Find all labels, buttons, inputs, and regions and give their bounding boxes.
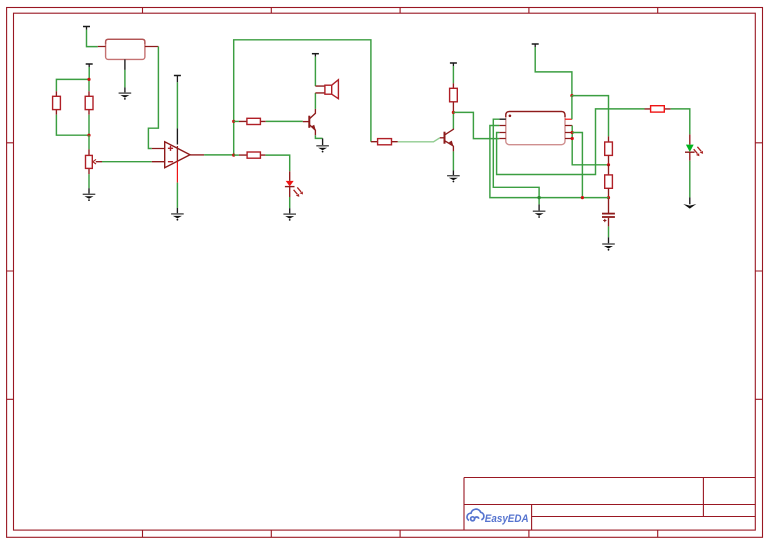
node junction 582 xyxy=(581,196,584,199)
wire R5 to LED1 xyxy=(265,155,289,171)
transistor Q2 xyxy=(445,128,454,151)
ground under LED2 xyxy=(683,204,696,209)
wire mic right to opamp plus xyxy=(148,47,158,149)
wire opamp output to junction xyxy=(204,154,234,156)
ground under mic xyxy=(119,92,132,99)
wire Q1 collector to speaker xyxy=(314,93,316,109)
resistor R6 xyxy=(371,139,398,145)
ground IC xyxy=(533,211,546,218)
resistor R9 xyxy=(605,136,613,164)
svg-text:EasyEDA: EasyEDA xyxy=(485,513,529,525)
ground under pot xyxy=(83,194,96,201)
node pin3R xyxy=(571,131,574,134)
wire T2 down to junction xyxy=(88,67,90,79)
power flag VCC T4 xyxy=(312,53,319,55)
resistor R10 xyxy=(605,165,613,198)
potentiometer RP1 xyxy=(86,149,103,174)
node junction bottom xyxy=(87,134,90,137)
ground under Q1 xyxy=(316,145,329,152)
node pin4R xyxy=(571,137,574,140)
resistor R8 bright xyxy=(645,106,671,112)
wire junction to R1 top xyxy=(56,79,89,91)
wire Q2 emitter to ground xyxy=(452,151,454,170)
IC left pin stubs xyxy=(499,118,506,120)
frame ticks top xyxy=(143,8,658,14)
node junction R9-R10 xyxy=(607,163,610,166)
wire junction to R5 xyxy=(234,154,239,156)
wire R4 to Q1 base xyxy=(266,120,303,122)
ground under opamp xyxy=(171,213,184,220)
wire Q2 collector junction to IC pin4L xyxy=(453,112,499,138)
wire R2 bottom to junction xyxy=(88,115,90,135)
wire T5 to R7 xyxy=(452,66,454,83)
wire R1 bottom to junction xyxy=(56,115,89,135)
power flag VCC T6 xyxy=(532,43,539,45)
wire IC pin1L to ground xyxy=(493,119,539,204)
ground under LED1 xyxy=(283,213,296,220)
node junction R4 xyxy=(232,120,235,123)
wire main vertical and top run xyxy=(234,40,371,155)
wire pin3R to lower junction xyxy=(572,133,582,198)
power flag VCC T3 xyxy=(174,75,181,77)
wire opamp bottom to ground xyxy=(176,183,178,208)
node junction R5 xyxy=(232,154,235,157)
node junction top xyxy=(87,78,90,81)
wire T1 to mic xyxy=(87,30,98,47)
frame ticks left xyxy=(7,143,14,400)
node junction Q2 collector xyxy=(452,111,455,114)
title block xyxy=(464,478,755,531)
LED D2 green xyxy=(685,134,703,160)
power flag VCC T5 xyxy=(450,62,457,64)
wire R6 to Q2 base (light) xyxy=(398,138,440,142)
wire T3 to opamp vcc pin xyxy=(176,82,178,128)
wire junction to Q2 collector xyxy=(452,112,454,128)
wire junction to R2 top xyxy=(88,79,90,91)
wire junction to pot xyxy=(88,135,90,149)
wire junction to R9 xyxy=(572,96,609,137)
ground under C1 xyxy=(602,243,615,250)
wire mic bottom to ground xyxy=(124,70,126,88)
wire IC pin3L to LED feed xyxy=(497,109,645,175)
LED D1 red xyxy=(285,171,303,197)
microphone MK1 body xyxy=(106,39,145,59)
node green crossing xyxy=(537,196,540,199)
power flag VCC T2 xyxy=(86,63,93,65)
resistor R1 xyxy=(53,91,61,115)
power flag VCC T1 xyxy=(83,26,90,28)
op-amp U1 xyxy=(152,142,204,168)
wire pot wiper to opamp minus xyxy=(102,161,152,163)
resistor R2 xyxy=(85,91,93,115)
resistor R5 xyxy=(239,152,266,158)
EasyEDA logo cloud xyxy=(467,509,484,521)
opamp bottom pin bright xyxy=(176,162,178,183)
wire C1 to ground xyxy=(608,226,610,237)
frame ticks bottom xyxy=(143,530,658,537)
IC U2 body xyxy=(506,112,565,145)
wire LED2 to ground xyxy=(689,161,691,198)
wire R8 to LED2 xyxy=(671,109,690,134)
ground under Q2 xyxy=(447,175,460,182)
wire pot bottom to ground xyxy=(88,174,90,188)
IC right pin stubs xyxy=(565,118,572,120)
speaker LS1 xyxy=(315,80,338,99)
resistor R7 xyxy=(450,83,458,112)
frame ticks right xyxy=(755,143,762,400)
wire Q1 emitter to ground xyxy=(315,135,322,138)
wire junction to IC pin1R xyxy=(571,96,573,120)
resistor R4 xyxy=(239,118,266,124)
wire junction to R4 xyxy=(234,120,239,122)
wire LED1 to ground xyxy=(289,197,291,208)
wire T6 to vcc junction xyxy=(535,47,572,96)
node vcc junction xyxy=(570,94,573,97)
transistor Q1 xyxy=(303,109,316,135)
wire IC pin2L long bottom run xyxy=(490,126,609,198)
wire IC pin2R down chain xyxy=(572,126,608,165)
wire T4 to speaker top xyxy=(314,57,316,87)
capacitor C1 xyxy=(602,198,615,227)
node junction R10-C1 xyxy=(607,196,610,199)
